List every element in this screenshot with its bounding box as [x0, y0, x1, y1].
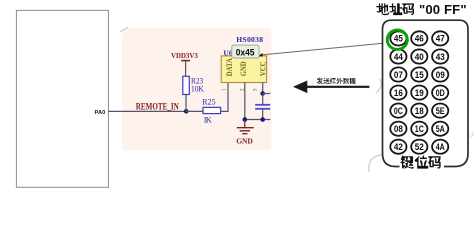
svg-text:18: 18	[415, 106, 424, 116]
remote button 42	[390, 140, 406, 154]
svg-text:1C: 1C	[415, 124, 424, 134]
svg-text:2: 2	[239, 88, 245, 91]
svg-text:0x45: 0x45	[236, 47, 255, 58]
svg-text:42: 42	[394, 142, 403, 152]
remote button 15	[411, 67, 427, 81]
svg-text:5A: 5A	[436, 124, 445, 134]
wire VCC to capacitor	[262, 94, 264, 105]
remote button 0D	[432, 86, 448, 100]
svg-text:09: 09	[436, 70, 445, 80]
svg-text:15: 15	[415, 70, 424, 80]
arrow send-IR-data head	[293, 81, 307, 94]
pin 2 wire	[244, 83, 246, 120]
svg-text:GND: GND	[236, 137, 253, 146]
node A junction	[184, 109, 189, 114]
wire R25 to pin1 corner	[221, 83, 228, 112]
wire node A to R23	[185, 95, 187, 112]
remote button 44	[390, 49, 406, 63]
callout box 0x45	[232, 45, 259, 58]
svg-text:1: 1	[221, 88, 227, 91]
mask behind key-code title	[400, 155, 445, 169]
svg-text:5E: 5E	[436, 106, 445, 116]
svg-text:07: 07	[394, 70, 403, 80]
remote button 47	[432, 31, 448, 45]
svg-text:16: 16	[394, 88, 403, 98]
remote button 1C	[411, 122, 427, 136]
arrow send-IR-data shaft	[305, 86, 369, 88]
svg-text:44: 44	[394, 52, 404, 62]
highlight ring on button 45	[387, 30, 407, 49]
svg-text:HS0038: HS0038	[236, 35, 263, 44]
remote button 08	[390, 122, 406, 136]
node ground-cap junction	[260, 117, 265, 122]
ground symbol bar 3	[242, 133, 247, 135]
MCU part body U?	[16, 10, 108, 187]
svg-text:45: 45	[394, 34, 403, 44]
decorative faint watermark arcs	[120, 27, 388, 172]
capacitor C? plate top	[255, 104, 270, 106]
remote button 43	[432, 49, 448, 63]
title key code	[401, 155, 415, 169]
remote button 5A	[432, 122, 448, 136]
svg-text:PA0: PA0	[95, 110, 106, 116]
wire PA0 to node A	[108, 110, 186, 112]
wire ground rail	[245, 119, 271, 121]
wire VDD3V3 to R23	[185, 61, 187, 77]
remote button 16	[390, 86, 406, 100]
power VDD3V3 bar symbol	[181, 60, 190, 62]
svg-text:40: 40	[415, 52, 424, 62]
svg-text:"00 FF": "00 FF"	[419, 2, 467, 17]
title address code	[376, 3, 389, 15]
callout arrowhead	[258, 53, 263, 57]
svg-text:19: 19	[415, 88, 424, 98]
svg-text:52: 52	[415, 142, 424, 152]
remote button 45	[390, 31, 406, 45]
svg-text:VDD3V3: VDD3V3	[171, 51, 198, 60]
remote button 4A	[432, 140, 448, 154]
svg-text:46: 46	[415, 34, 424, 44]
remote button 07	[390, 67, 406, 81]
svg-text:0C: 0C	[394, 106, 403, 116]
remote body outline	[383, 20, 469, 166]
remote button 09	[432, 67, 448, 81]
svg-text:08: 08	[394, 124, 403, 134]
remote button 40	[411, 49, 427, 63]
wire VCC stub	[263, 93, 271, 95]
op IC body U6 HS0038	[221, 56, 266, 83]
svg-text:GND: GND	[239, 61, 248, 76]
wire node A to R25	[186, 110, 203, 112]
remote button 5E	[432, 104, 448, 118]
svg-text:10K: 10K	[191, 85, 204, 94]
remote button 18	[411, 104, 427, 118]
callout leader line	[261, 43, 387, 55]
remote button 19	[411, 86, 427, 100]
wire capacitor to ground rail	[262, 110, 264, 120]
svg-text:3: 3	[252, 88, 258, 91]
schematic sheet background	[122, 28, 272, 151]
svg-text:4A: 4A	[436, 142, 445, 152]
remote button 52	[411, 140, 427, 154]
svg-text:47: 47	[436, 34, 445, 44]
resistor R23	[183, 76, 190, 94]
svg-text:DATA: DATA	[225, 58, 234, 76]
remote button 0C	[390, 104, 406, 118]
ground symbol stem	[244, 120, 246, 128]
svg-text:43: 43	[436, 52, 445, 62]
svg-text:VCC: VCC	[258, 61, 267, 76]
svg-text:R25: R25	[202, 98, 215, 107]
pin 3 wire	[262, 83, 264, 94]
node VCC junction	[260, 91, 265, 96]
svg-text:0D: 0D	[436, 88, 445, 98]
ground symbol bar 2	[240, 130, 251, 132]
label send IR data	[317, 77, 324, 84]
svg-text:1K: 1K	[203, 115, 212, 124]
remote button 46	[411, 31, 427, 45]
resistor R25	[203, 107, 221, 113]
node ground-pin2 junction	[243, 117, 248, 122]
svg-text:REMOTE_IN: REMOTE_IN	[136, 103, 179, 113]
capacitor C? plate bottom	[255, 108, 270, 110]
ground symbol bar 1	[237, 127, 254, 129]
